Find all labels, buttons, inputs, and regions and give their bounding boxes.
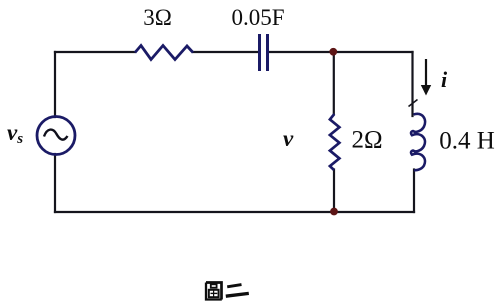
svg-text:2Ω: 2Ω xyxy=(351,127,382,154)
svg-text:0.4 H: 0.4 H xyxy=(439,127,495,154)
svg-text:v: v xyxy=(283,126,294,151)
svg-text:0.05F: 0.05F xyxy=(231,5,284,30)
svg-text:i: i xyxy=(441,67,448,92)
svg-text:3Ω: 3Ω xyxy=(143,5,172,30)
